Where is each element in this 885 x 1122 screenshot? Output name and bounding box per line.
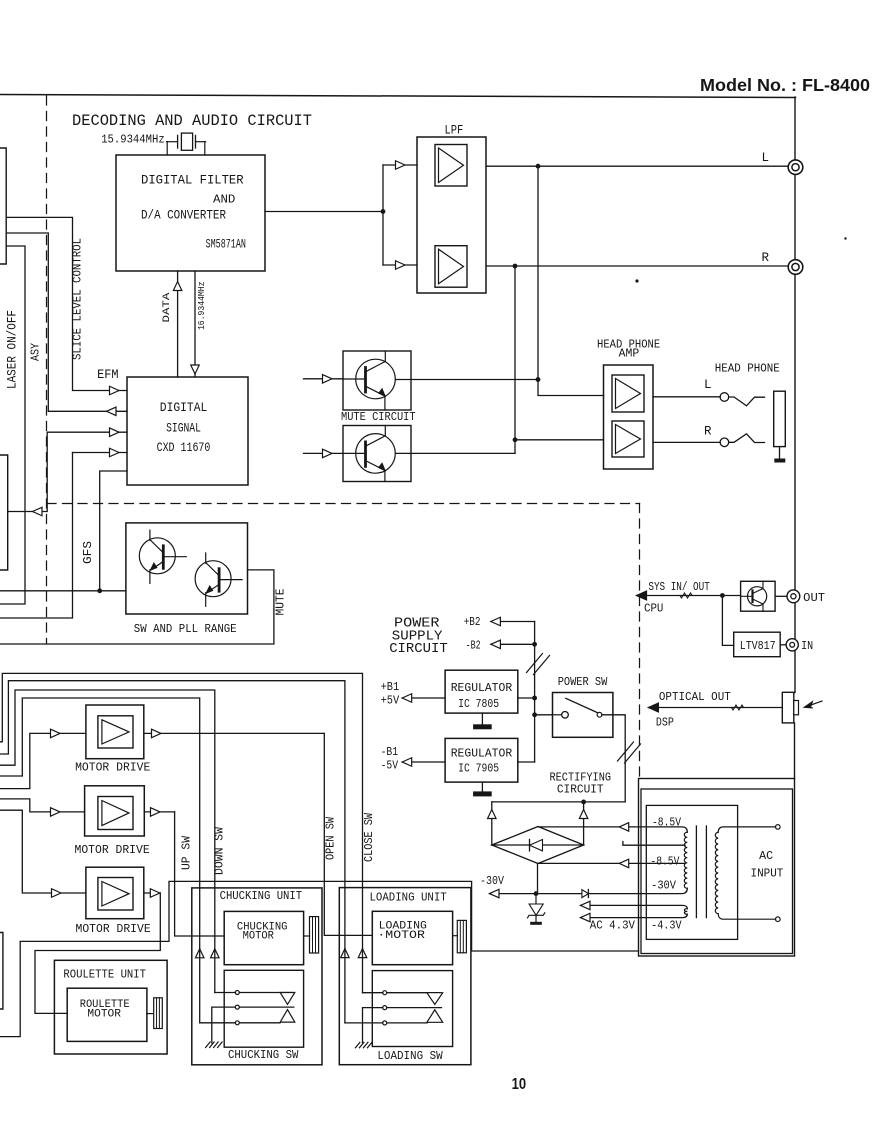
wire mute input stub lower [304,452,344,454]
diode D2 on -30V line [582,890,589,898]
svg-text:CXD 11670: CXD 11670 [157,441,211,455]
chucking switch bottom [199,949,201,1023]
svg-text:OUT: OUT [803,591,825,605]
wire right vertical bus [794,97,796,160]
wire rail to power switch [535,714,553,716]
resistor R2 optical line [732,705,744,710]
svg-text:SW AND PLL RANGE: SW AND PLL RANGE [134,622,237,636]
transistor Q1 mute upper box [343,351,411,410]
arrow loading open sw [341,949,350,958]
resistor R1 sys line [680,593,692,598]
svg-text:GFS: GFS [82,541,95,564]
svg-text:LOADING UNIT: LOADING UNIT [370,890,447,904]
terminal AC top [776,825,781,830]
wire SLICE LEVEL CONTROL / EFM [6,217,127,390]
cut-off box at page edge middle [0,455,8,570]
block AC section outer box [639,779,795,957]
svg-text:-30V: -30V [480,875,504,888]
wire 16.9344MHz down [194,271,196,377]
svg-text:Model No. : FL-8400: Model No. : FL-8400 [700,75,870,95]
svg-text:SM5871AN: SM5871AN [206,238,246,252]
wire top horizontal bus [0,95,796,98]
block U4 REGULATOR IC 7805 [445,670,518,713]
block ROULETTE UNIT [54,960,167,1054]
stray print speck 2 [844,237,846,239]
svg-text:-30V: -30V [651,879,676,892]
svg-text:MUTE: MUTE [274,588,287,615]
block U1 DIGITAL FILTER AND D/A CONVERTER SM5871AN [116,155,265,271]
svg-text:IC 7805: IC 7805 [458,697,499,711]
block motor drive 1 [86,705,144,759]
wire GFS [100,471,127,591]
wire 7905 to rail [518,761,535,763]
svg-text:CIRCUIT: CIRCUIT [389,641,448,657]
motor symbol loading [453,935,458,937]
arrow DATA up [173,282,182,291]
wire rectifier left drop [491,802,493,845]
wire power switch to rectifier [602,715,625,802]
transistor Q2 mute lower box [343,426,411,482]
svg-text:15.9344MHz: 15.9344MHz [101,133,165,147]
dashed section boundary horizontal [47,503,640,505]
svg-text:+B2: +B2 [464,615,481,629]
cut-off box at page edge upper [0,148,6,264]
block loading motor M3 [372,911,452,964]
wire to OUT connector [775,595,787,597]
svg-text:MUTE CIRCUIT: MUTE CIRCUIT [341,410,416,424]
capacitor ground 7805 [481,713,483,724]
ground headphone jack [779,447,781,459]
svg-text:DATA: DATA [161,292,173,323]
transistor Q4 sw-pll right [195,561,231,597]
op-amp LPF upper [435,145,467,187]
wire into LPF upper [383,164,417,166]
cable slash marks power sw [618,742,634,761]
svg-text:REGULATOR: REGULATOR [451,747,513,761]
svg-text:DECODING AND AUDIO CIRCUIT: DECODING AND AUDIO CIRCUIT [72,112,312,130]
svg-text:CHUCKING SW: CHUCKING SW [228,1048,299,1062]
wire LPF upper output to L connector [486,165,788,167]
wire center tap [623,842,685,846]
junction mute L [536,377,541,382]
wire sw-pll input from page edge [0,590,126,592]
wire B2 vertical feed [534,622,536,763]
connector OUT [787,590,800,603]
svg-text:AC: AC [759,850,773,863]
loading switch top [362,949,364,993]
svg-text:D/A CONVERTER: D/A CONVERTER [141,209,226,223]
stray print speck [635,279,638,282]
ground loading [355,1042,360,1048]
op-amp headphone R [612,421,644,457]
wire -B2 [491,643,535,645]
block SW AND PLL RANGE [126,523,248,614]
block transformer box [646,805,737,939]
svg-text:10: 10 [512,1076,526,1093]
svg-text:IC 7905: IC 7905 [458,762,499,776]
jack switch R [720,438,729,447]
loading switch bottom [344,949,346,1023]
chucking switch middle [235,1005,239,1009]
svg-text:INPUT: INPUT [751,867,784,880]
arrow AC4.3V lower [581,913,591,922]
arrow 16.9344MHz down into digital signal [191,365,200,374]
transformer T1 core [695,826,697,918]
junction rectifier [581,800,586,805]
svg-text:LOADING SW: LOADING SW [377,1049,443,1063]
dashed section boundary vertical left [46,96,48,643]
arrow up right [579,810,588,819]
svg-text:-B1: -B1 [381,745,399,759]
svg-text:-8.5V: -8.5V [650,855,679,868]
wire into digital signal third [47,431,127,433]
wire L audio down to headphone amp [538,166,604,395]
svg-text:CHUCKING UNIT: CHUCKING UNIT [220,889,303,903]
svg-text:+B1: +B1 [381,680,400,694]
wire fourth into digital signal [73,452,128,454]
svg-text:DIGITAL FILTER: DIGITAL FILTER [141,174,244,188]
motor symbol chucking [304,935,310,937]
wire motor drive 2 input [0,799,85,812]
svg-text:LTV817: LTV817 [740,639,776,653]
transformer primary rail right [718,827,775,832]
svg-text:LPF: LPF [445,124,464,138]
wire mute upper output [395,379,538,381]
motor symbol roulette [147,1013,153,1015]
block headphone amp U3 [604,365,654,469]
wire bus UP SW [0,698,200,949]
wire LTV817 to IN [780,644,786,646]
svg-text:IN: IN [801,639,813,653]
ground zener [530,922,542,925]
wire bus OPEN SW [0,681,345,949]
svg-text:MOTOR DRIVE: MOTOR DRIVE [76,922,151,936]
svg-text:ROULETTE UNIT: ROULETTE UNIT [63,969,146,982]
wire bus DOWN SW [0,690,215,949]
block motor drive 2 [85,786,145,836]
transistor Q3 sw-pll left [139,538,175,574]
svg-text:HEAD PHONE: HEAD PHONE [715,362,780,375]
wire -8.5V bottom tap [538,862,685,864]
svg-text:CLOSE SW: CLOSE SW [363,813,376,862]
svg-text:SYS IN/ OUT: SYS IN/ OUT [648,580,709,594]
wire motor drive 2 output to chucking motor [144,811,174,813]
svg-text:MOTOR DRIVE: MOTOR DRIVE [75,843,150,857]
svg-text:-8.5V: -8.5V [652,816,681,829]
wire into LPF lower [383,264,417,266]
block power switch S1 [553,693,613,738]
svg-text:AMP: AMP [619,348,640,361]
svg-text:REGULATOR: REGULATOR [451,681,513,695]
terminal AC bottom [776,917,781,922]
wire mute feedback from sw-pll [0,570,274,644]
transformer secondary rail left with -8.5V/-30V taps [538,827,687,832]
transformer small winding 4.3V [581,905,688,908]
block loading switch box [372,971,452,1047]
svg-text:DSP: DSP [656,715,674,729]
svg-text:+5V: +5V [381,694,400,708]
switch contacts [553,714,562,716]
block chucking switch box [224,970,303,1047]
svg-text:LASER ON/OFF: LASER ON/OFF [6,310,20,389]
block motor drive 3 [86,867,144,919]
wire -30V long line from bottom-left [0,881,639,1036]
wire motor drive 3 output to roulette [144,892,161,894]
wire R audio down to headphone amp [514,266,516,453]
wire headphone R out [653,441,720,443]
loading switch middle [383,1006,387,1010]
laser beam arrow [806,701,822,707]
connector R output [788,260,803,275]
arrow loading close sw [358,949,367,958]
cut-off box at page edge lower (roulette area) [0,933,3,1010]
op-amp headphone L [612,375,644,412]
svg-text:SLICE LEVEL CONTROL: SLICE LEVEL CONTROL [71,238,85,360]
arrow chucking up sw [195,949,204,958]
wire to sys transistor [722,595,740,597]
block LOADING UNIT [339,888,471,1065]
arrow up left [488,810,497,819]
diode bridge D1 [492,827,584,864]
wire optical out [648,707,782,709]
wire mute lower output [395,452,515,454]
block U5 REGULATOR IC 7905 [445,738,518,782]
diode inside bridge [530,840,543,851]
svg-text:UP SW: UP SW [180,836,193,870]
wire rectifier right drop [583,802,585,845]
svg-text:EFM: EFM [97,368,118,382]
svg-text:AC 4.3V: AC 4.3V [590,920,635,933]
wire DATA up [177,271,179,377]
junction node LPF input split [381,209,386,214]
svg-text:R: R [762,251,770,265]
arrow left-exit [33,507,43,516]
wire headphone L out [653,396,720,398]
op-amp LPF lower [435,246,467,288]
block roulette motor M1 [67,988,147,1041]
ground chucking [206,1042,211,1048]
wire mute input stub upper [304,378,344,380]
block LPF [417,137,486,293]
svg-text:-5V: -5V [381,758,399,772]
wire motor drive 1 output to loading motor [144,732,324,734]
chucking switch top [214,949,216,993]
connector IN [786,639,798,651]
wire digital filter output to LPF [265,211,383,213]
wire bus CLOSE SW [0,673,363,948]
svg-text:DIGITAL: DIGITAL [160,401,208,415]
dashed section boundary vertical right [639,504,641,778]
connector L output [788,160,803,175]
svg-text:R: R [704,425,712,439]
wire LASER ON/OFF [0,246,25,604]
svg-text:OPEN SW: OPEN SW [325,817,338,860]
svg-text:CIRCUIT: CIRCUIT [557,783,604,797]
arrow ASY pointing left [107,407,117,416]
svg-text:DOWN SW: DOWN SW [213,827,226,875]
svg-text:POWER SW: POWER SW [558,675,608,689]
wire LPF input bracket [382,165,384,265]
junction -B2 [532,642,537,647]
svg-text:-B2: -B2 [466,639,481,653]
wire +B2 [491,621,535,623]
zener diode D3 [535,894,537,904]
wire motor drive 3 input [0,810,86,893]
junction node R [513,264,518,269]
svg-text:SIGNAL: SIGNAL [166,422,201,436]
svg-text:CPU: CPU [644,602,663,616]
wire motor drive 1 input [0,733,86,788]
block chucking motor M2 [224,911,303,964]
wire ASY out [6,233,127,411]
svg-text:MOTOR DRIVE: MOTOR DRIVE [75,760,150,774]
wire +B1/+5V out [402,697,445,699]
junction sys node [720,593,725,598]
svg-text:ASY: ASY [28,343,42,361]
block U2 DIGITAL SIGNAL CXD 11670 [127,377,248,485]
wire sys to LTV817 [722,596,733,646]
jack switch L [720,393,729,402]
capacitor ground 7905 [481,782,483,791]
block CHUCKING UNIT [192,888,322,1065]
wire from fourth line down to page edge [0,453,73,619]
wire -B1/-5V out [402,761,445,763]
block U6 LTV817 [734,632,781,657]
wire LPF lower output to R connector [486,265,788,267]
junction mute R [513,437,518,442]
svg-text:AND: AND [213,193,235,207]
arrow chucking down sw [211,949,220,958]
cable slash marks B2 [527,654,543,673]
junction GFS node [97,588,102,593]
svg-text:L: L [762,151,770,165]
junction node L [536,164,541,169]
block AC section inner box [641,789,793,954]
svg-text:OPTICAL OUT: OPTICAL OUT [659,690,731,704]
svg-text:L: L [704,378,712,392]
svg-text:16.9344MHz: 16.9344MHz [196,282,207,331]
optical connector J1 [782,692,794,723]
arrow AC4.3V upper [581,901,591,910]
wire rectifier top bus [492,801,625,803]
wire sys in/out [637,595,723,597]
wire 7805 to B2 rail [518,697,535,699]
headphone jack body [774,391,786,446]
transistor Q5 sys driver [741,581,776,611]
svg-text:MOTOR: MOTOR [243,931,275,943]
svg-text:MOTOR: MOTOR [87,1009,121,1021]
svg-text:-4.3V: -4.3V [651,920,682,933]
arrow into digital signal EFM [110,386,120,395]
wire down from third line to left-exit [8,432,48,511]
svg-text:·MOTOR: ·MOTOR [377,930,425,942]
wire -30V [537,864,539,894]
